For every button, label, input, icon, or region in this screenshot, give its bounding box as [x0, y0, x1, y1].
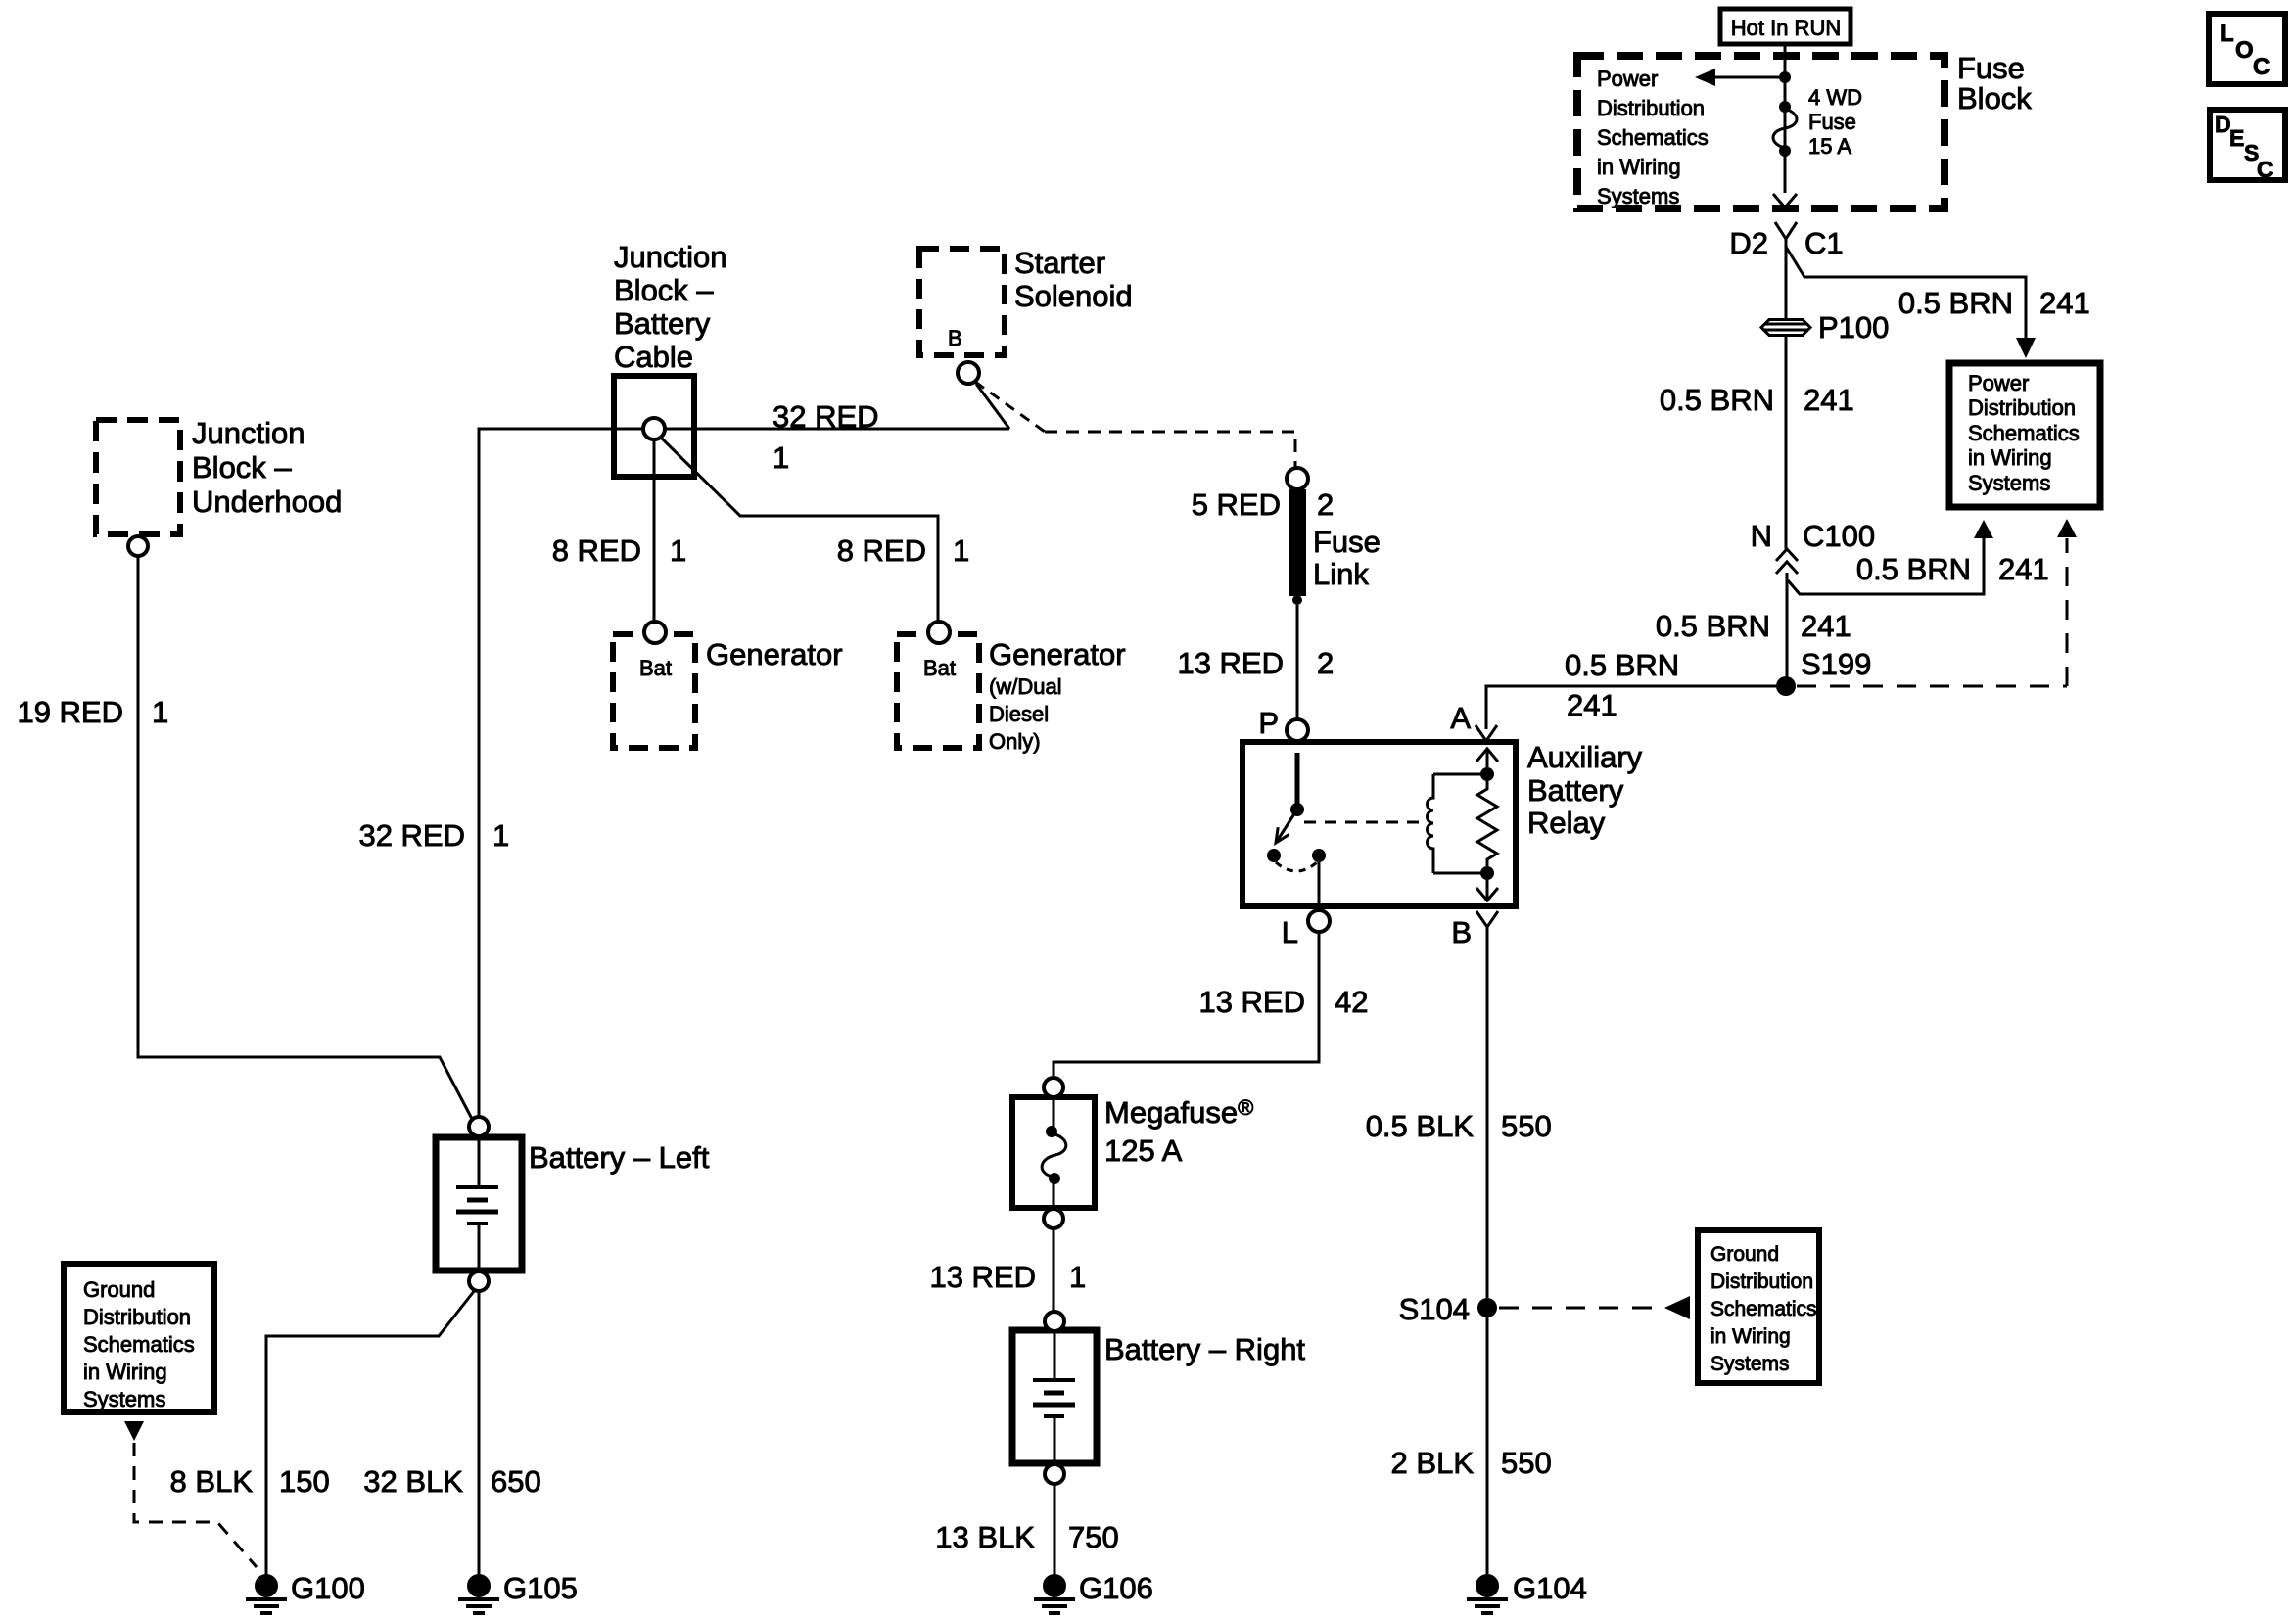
svg-text:1: 1: [152, 695, 168, 729]
svg-text:13 BLK: 13 BLK: [935, 1520, 1035, 1554]
svg-text:241: 241: [1804, 383, 1854, 417]
svg-text:Battery: Battery: [614, 306, 711, 341]
svg-text:Junction: Junction: [614, 240, 726, 274]
svg-text:13 RED: 13 RED: [929, 1260, 1036, 1294]
svg-text:Relay: Relay: [1527, 806, 1606, 840]
svg-text:L: L: [2220, 21, 2234, 47]
svg-text:Ground: Ground: [1710, 1243, 1779, 1266]
svg-text:S199: S199: [1801, 647, 1871, 681]
svg-text:8 RED: 8 RED: [552, 533, 641, 568]
svg-text:42: 42: [1335, 985, 1368, 1019]
svg-text:0.5 BLK: 0.5 BLK: [1366, 1109, 1475, 1143]
svg-text:G100: G100: [291, 1571, 365, 1605]
svg-text:Cable: Cable: [614, 340, 693, 374]
svg-text:(w/Dual: (w/Dual: [989, 674, 1062, 699]
svg-text:8 RED: 8 RED: [837, 533, 926, 568]
svg-text:D2: D2: [1729, 226, 1768, 260]
svg-text:Schematics: Schematics: [1710, 1298, 1817, 1320]
svg-text:Systems: Systems: [83, 1387, 165, 1411]
svg-text:Distribution: Distribution: [83, 1305, 191, 1329]
svg-text:Fuse: Fuse: [1808, 110, 1856, 134]
svg-text:0.5 BRN: 0.5 BRN: [1898, 286, 2013, 320]
svg-text:125 A: 125 A: [1104, 1133, 1183, 1168]
svg-text:750: 750: [1068, 1520, 1119, 1554]
svg-text:Generator: Generator: [706, 637, 843, 671]
svg-text:241: 241: [1801, 609, 1851, 643]
svg-text:Ground: Ground: [83, 1277, 155, 1302]
svg-text:32 RED: 32 RED: [773, 399, 879, 434]
svg-text:N: N: [1751, 519, 1772, 553]
svg-text:1: 1: [1069, 1260, 1086, 1294]
svg-text:Schematics: Schematics: [1597, 125, 1709, 150]
svg-text:Block: Block: [1957, 81, 2032, 115]
svg-text:in Wiring: in Wiring: [1597, 155, 1681, 179]
svg-text:0.5 BRN: 0.5 BRN: [1660, 383, 1774, 417]
svg-text:Distribution: Distribution: [1597, 96, 1705, 120]
svg-text:150: 150: [279, 1464, 330, 1499]
svg-text:8 BLK: 8 BLK: [170, 1464, 254, 1499]
svg-text:C100: C100: [1803, 519, 1875, 553]
svg-text:Auxiliary: Auxiliary: [1527, 740, 1643, 774]
svg-text:Underhood: Underhood: [192, 485, 342, 519]
svg-text:Junction: Junction: [192, 416, 305, 450]
svg-text:0.5 BRN: 0.5 BRN: [1856, 552, 1971, 586]
svg-text:4 WD: 4 WD: [1808, 85, 1862, 110]
svg-text:Solenoid: Solenoid: [1014, 279, 1133, 313]
svg-text:15 A: 15 A: [1808, 134, 1851, 159]
svg-text:Generator: Generator: [989, 637, 1126, 671]
svg-text:Battery – Left: Battery – Left: [529, 1140, 710, 1175]
svg-text:Block –: Block –: [614, 273, 714, 307]
svg-text:G106: G106: [1079, 1571, 1153, 1605]
svg-text:Schematics: Schematics: [83, 1332, 195, 1357]
svg-text:Starter: Starter: [1014, 246, 1105, 280]
svg-text:241: 241: [1567, 688, 1617, 722]
svg-text:P100: P100: [1818, 310, 1889, 345]
svg-text:Systems: Systems: [1710, 1353, 1790, 1375]
svg-text:in Wiring: in Wiring: [1968, 445, 2052, 470]
svg-text:Megafuse®: Megafuse®: [1104, 1095, 1253, 1130]
svg-text:0.5 BRN: 0.5 BRN: [1656, 609, 1770, 643]
svg-text:G105: G105: [503, 1571, 578, 1605]
svg-text:2: 2: [1317, 487, 1334, 522]
svg-text:Bat: Bat: [923, 656, 956, 680]
svg-text:550: 550: [1501, 1446, 1552, 1480]
svg-text:C: C: [2253, 54, 2270, 80]
svg-text:5 RED: 5 RED: [1192, 487, 1281, 522]
svg-text:550: 550: [1501, 1109, 1552, 1143]
svg-text:Distribution: Distribution: [1710, 1270, 1813, 1293]
svg-text:A: A: [1450, 701, 1471, 735]
svg-text:O: O: [2235, 37, 2254, 64]
svg-text:E: E: [2229, 125, 2244, 151]
svg-text:2 BLK: 2 BLK: [1391, 1446, 1475, 1480]
svg-text:C: C: [2257, 157, 2273, 182]
svg-text:in Wiring: in Wiring: [1710, 1325, 1791, 1348]
svg-text:Hot In RUN: Hot In RUN: [1731, 16, 1841, 40]
svg-text:in Wiring: in Wiring: [83, 1360, 167, 1384]
svg-text:Power: Power: [1968, 371, 2029, 395]
svg-text:L: L: [1282, 915, 1298, 949]
svg-text:C1: C1: [1804, 226, 1844, 260]
svg-text:Battery: Battery: [1527, 773, 1624, 808]
svg-text:Battery – Right: Battery – Right: [1104, 1332, 1305, 1366]
svg-text:650: 650: [491, 1464, 541, 1499]
svg-text:G104: G104: [1513, 1571, 1587, 1605]
svg-text:Systems: Systems: [1597, 184, 1679, 208]
svg-text:B: B: [1451, 915, 1472, 949]
svg-text:Systems: Systems: [1968, 471, 2050, 495]
svg-text:Power: Power: [1597, 67, 1658, 91]
svg-text:Distribution: Distribution: [1968, 395, 2076, 420]
svg-text:Link: Link: [1313, 557, 1369, 591]
svg-text:Schematics: Schematics: [1968, 421, 2080, 445]
svg-text:32 BLK: 32 BLK: [363, 1464, 463, 1499]
svg-text:P: P: [1258, 706, 1279, 740]
svg-text:Diesel: Diesel: [989, 702, 1049, 726]
svg-text:241: 241: [2039, 286, 2090, 320]
svg-text:241: 241: [1998, 552, 2049, 586]
svg-text:2: 2: [1317, 646, 1334, 680]
svg-text:Only): Only): [989, 729, 1041, 754]
svg-text:Bat: Bat: [639, 656, 672, 680]
svg-text:32 RED: 32 RED: [358, 818, 465, 853]
svg-text:13 RED: 13 RED: [1177, 646, 1284, 680]
svg-text:Block –: Block –: [192, 450, 292, 485]
svg-text:1: 1: [492, 818, 509, 853]
svg-text:19 RED: 19 RED: [17, 695, 123, 729]
svg-text:Fuse: Fuse: [1957, 51, 2025, 85]
svg-text:S104: S104: [1399, 1292, 1470, 1326]
svg-text:0.5 BRN: 0.5 BRN: [1565, 648, 1679, 682]
svg-text:1: 1: [670, 533, 686, 568]
svg-text:B: B: [948, 326, 962, 350]
svg-text:1: 1: [773, 440, 789, 475]
svg-text:Fuse: Fuse: [1313, 525, 1381, 559]
svg-text:13 RED: 13 RED: [1198, 985, 1305, 1019]
svg-text:1: 1: [953, 533, 969, 568]
